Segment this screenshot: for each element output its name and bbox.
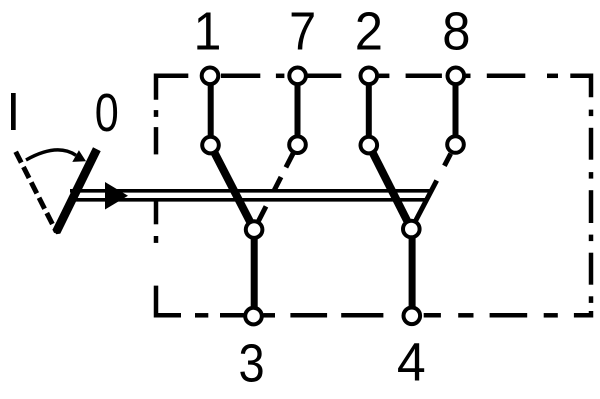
svg-text:0: 0	[95, 84, 119, 144]
svg-text:8: 8	[442, 2, 470, 62]
svg-text:1: 1	[194, 2, 222, 62]
svg-text:3: 3	[239, 332, 265, 393]
svg-text:I: I	[6, 83, 20, 143]
svg-text:4: 4	[397, 333, 426, 393]
svg-text:7: 7	[289, 0, 316, 61]
svg-text:2: 2	[355, 2, 383, 62]
